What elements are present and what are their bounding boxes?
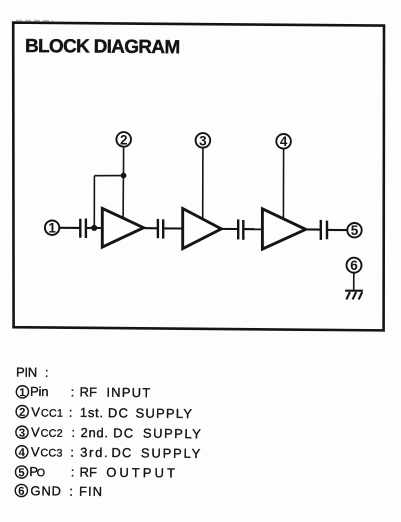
wire C4 to pin5 <box>328 229 347 231</box>
svg-text:SUPPLY: SUPPLY <box>136 406 194 422</box>
svg-text:1: 1 <box>48 221 56 236</box>
wire C3 to A3 <box>244 228 262 230</box>
pin 4 <box>276 134 291 149</box>
svg-text::: : <box>71 425 75 440</box>
svg-text:DC: DC <box>111 445 132 460</box>
svg-text:FIN: FIN <box>79 484 103 499</box>
svg-text:V: V <box>31 444 40 459</box>
svg-text:1: 1 <box>19 387 26 399</box>
wire pin2 branch left <box>94 175 123 177</box>
wire A3 to C4 <box>306 228 320 230</box>
svg-text:Pin: Pin <box>30 384 48 399</box>
svg-text::: : <box>71 384 75 399</box>
svg-text:GND: GND <box>30 483 61 498</box>
ground <box>345 291 363 300</box>
svg-text:CC3: CC3 <box>40 447 62 459</box>
legend pin 4 : Vcc3 3rd. DC SUPPLY <box>16 444 203 461</box>
legend pin 1 : Pin RF INPUT <box>16 384 151 401</box>
svg-text:CC1: CC1 <box>41 408 63 420</box>
svg-text:DC: DC <box>108 405 129 420</box>
wire A1 to C2 <box>144 227 157 229</box>
svg-text:V: V <box>31 404 40 419</box>
svg-text:3rd.: 3rd. <box>80 445 109 460</box>
svg-text::: : <box>71 464 75 479</box>
svg-text:3: 3 <box>19 427 26 439</box>
svg-text:OUTPUT: OUTPUT <box>106 465 178 481</box>
svg-text:2: 2 <box>120 132 128 147</box>
wire C1 to A1 <box>87 227 102 229</box>
svg-text:4: 4 <box>280 134 288 149</box>
svg-text:PIN: PIN <box>16 365 37 380</box>
legend pin 3 : Vcc2 2nd. DC SUPPLY <box>16 424 203 441</box>
svg-text:5: 5 <box>18 467 25 479</box>
amplifier A3 <box>262 209 305 249</box>
svg-text:SUPPLY: SUPPLY <box>141 445 202 461</box>
wire C2 to A2 <box>164 227 183 229</box>
wire pin6 to ground <box>353 273 355 290</box>
legend pin 6 : GND FIN <box>15 483 103 499</box>
svg-text:V: V <box>31 425 40 440</box>
svg-text::: : <box>70 445 74 460</box>
pin 1 <box>45 221 59 236</box>
pin 3 <box>196 133 211 148</box>
svg-text:SUPPLY: SUPPLY <box>143 426 202 442</box>
amplifier A2 <box>183 209 222 249</box>
svg-text:4: 4 <box>18 447 25 459</box>
svg-text:CC2: CC2 <box>41 428 63 440</box>
svg-text:2: 2 <box>19 407 26 419</box>
svg-text:RF: RF <box>79 465 97 480</box>
svg-text::: : <box>45 365 49 380</box>
node junction pin2 <box>121 173 127 179</box>
svg-text:6: 6 <box>18 486 25 498</box>
svg-text::: : <box>69 484 73 499</box>
svg-text:2nd.: 2nd. <box>81 425 109 440</box>
legend heading PIN : <box>16 365 49 380</box>
node junction input <box>91 225 97 231</box>
wire A2 to C3 <box>221 228 237 230</box>
wire branch down to input node <box>93 176 95 228</box>
wire input pin1 to C1 <box>59 227 79 229</box>
wire pin3 drop <box>202 148 204 220</box>
svg-text:3: 3 <box>199 133 207 148</box>
svg-text:BLOCK DIAGRAM: BLOCK DIAGRAM <box>25 36 180 58</box>
svg-text:INPUT: INPUT <box>106 385 151 400</box>
svg-text:5: 5 <box>351 223 359 238</box>
svg-text:PO: PO <box>29 464 45 479</box>
capacitor C3 <box>238 219 243 239</box>
wire pin2 to amp1 top <box>122 176 124 220</box>
wire pin2 drop <box>123 147 125 176</box>
svg-text:RF: RF <box>79 384 97 399</box>
legend pin 2 : Vcc1 1st. DC SUPPLY <box>16 404 193 421</box>
legend pin 5 : Po RF OUTPUT <box>15 464 178 481</box>
amplifier A1 <box>102 208 143 247</box>
capacitor C2 <box>158 219 163 239</box>
enclosure box <box>13 23 384 331</box>
svg-text:1st.: 1st. <box>80 405 104 420</box>
capacitor C1 <box>80 219 86 239</box>
capacitor C4 <box>321 220 327 240</box>
svg-text::: : <box>69 405 73 420</box>
svg-text:DC: DC <box>113 425 134 440</box>
wire pin4 drop <box>282 149 284 220</box>
svg-text:6: 6 <box>350 258 358 273</box>
pin 2 <box>116 132 131 147</box>
pin 5 <box>347 223 361 238</box>
pin 6 <box>347 258 362 273</box>
